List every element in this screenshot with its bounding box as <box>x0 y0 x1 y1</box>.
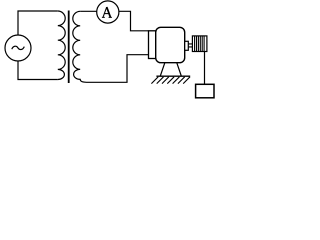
weight block <box>196 84 214 98</box>
winch drum <box>192 36 207 52</box>
motor support stand <box>160 63 181 76</box>
wire ammeter to motor <box>119 11 149 31</box>
wire secondary bottom to motor <box>87 55 149 83</box>
rope <box>204 52 206 85</box>
AC source G1 <box>5 35 31 61</box>
transformer secondary coil L2 <box>73 11 87 82</box>
motor shaft <box>188 44 192 47</box>
wire top-left <box>18 11 58 35</box>
winch drum rope windings <box>195 36 205 51</box>
motor shaft hub <box>185 41 189 50</box>
transformer core <box>68 11 70 84</box>
transformer primary coil L1 <box>58 11 65 80</box>
AC sine symbol <box>12 46 24 49</box>
ground line <box>156 75 190 77</box>
wire secondary top to ammeter <box>80 10 97 12</box>
ammeter A <box>97 1 119 23</box>
ground hatching <box>151 77 190 84</box>
motor end cap <box>149 31 156 59</box>
motor body M <box>156 27 185 62</box>
wire bottom-left <box>18 61 58 80</box>
ammeter label A <box>102 7 112 17</box>
